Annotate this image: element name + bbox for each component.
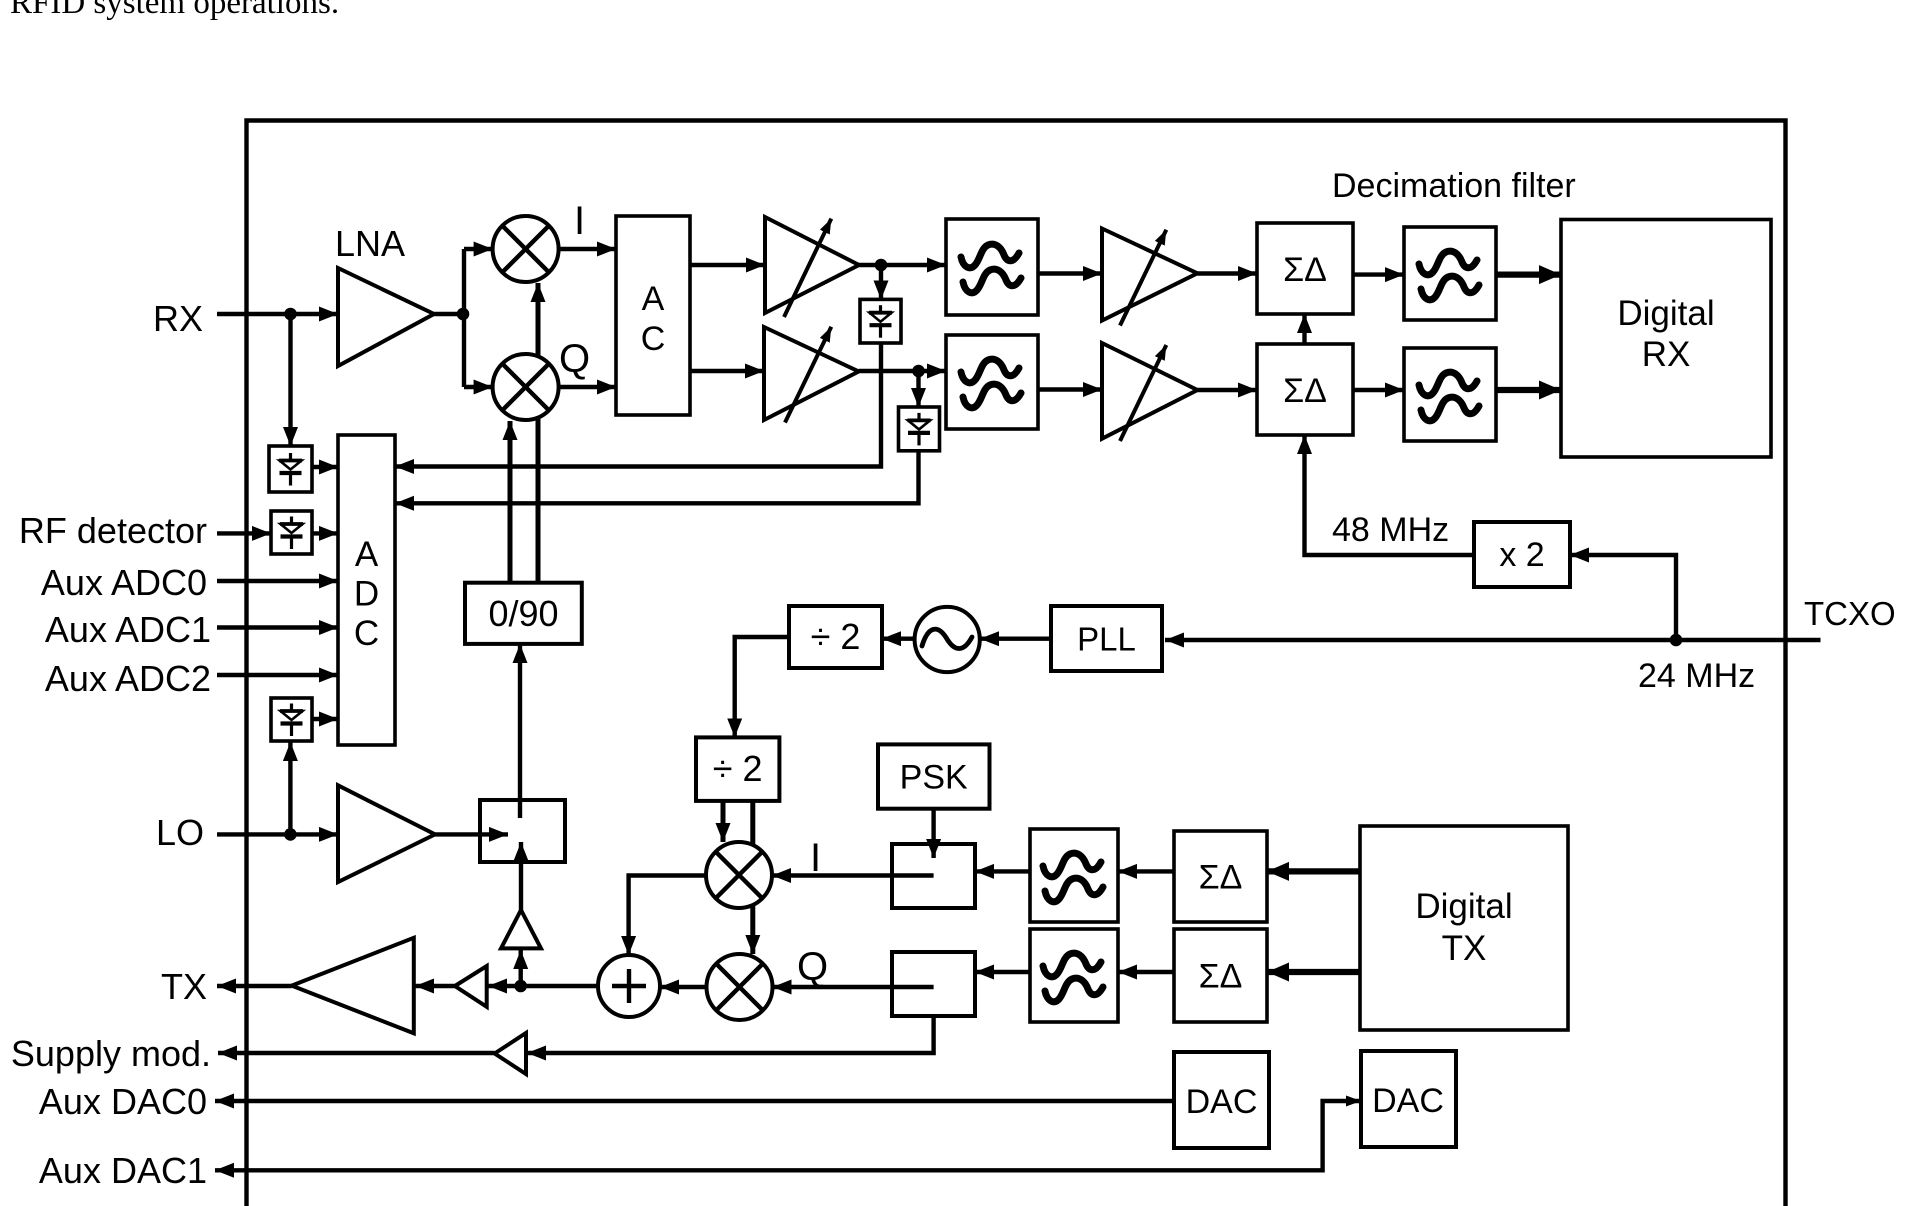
junction RX-detector: [284, 308, 297, 321]
block Digital TX: [1360, 826, 1568, 1030]
svg-text:PLL: PLL: [1077, 621, 1136, 658]
modulator switch Q: [892, 952, 975, 1016]
oscillator VCO: [915, 607, 980, 672]
modulator switch I: [892, 844, 975, 908]
svg-text:Digital: Digital: [1617, 294, 1714, 333]
filter RX I first: [946, 219, 1038, 315]
wire LO amp into mux: [435, 832, 508, 836]
block AC: [616, 216, 690, 415]
svg-text:Digital: Digital: [1415, 887, 1512, 926]
detector A: [269, 446, 312, 492]
wire RX to detector A: [288, 314, 292, 446]
wire clock between sigma-deltas: [1302, 314, 1306, 344]
block ADC: [338, 435, 395, 745]
junction TX node: [514, 980, 527, 993]
wire VGA2 to filter2: [859, 369, 946, 373]
svg-text:ΣΔ: ΣΔ: [1199, 859, 1243, 897]
block sigma-delta RX Q: [1257, 344, 1353, 435]
svg-text:0/90: 0/90: [488, 593, 558, 634]
block LO mux: [480, 800, 565, 862]
wire VCO to div2 first: [882, 637, 915, 641]
wire filter2 to VGA4: [1038, 387, 1102, 391]
wire TX LO into mux: [519, 842, 523, 910]
wire LO 0/90 to mixer Q: [508, 421, 513, 583]
amplifier VGA2: [764, 327, 859, 423]
filter RX Q first: [946, 335, 1038, 429]
mixer RX I: [493, 216, 559, 282]
wire TX filter Q to Q modulator: [975, 970, 1030, 974]
wire buffer to TX amp: [415, 984, 455, 988]
svg-text:ΣΔ: ΣΔ: [1283, 251, 1327, 289]
detector D2: [899, 407, 940, 451]
wire detector A to ADC: [312, 465, 338, 469]
wire mixer Q to AC: [559, 385, 616, 389]
filter RX Q second: [1404, 348, 1496, 441]
wire VGA4 to sigma-delta RX Q: [1197, 388, 1257, 392]
junction VGA2 output: [912, 365, 925, 378]
wire Aux ADC1 input: [217, 625, 338, 629]
block sigma-delta TX I: [1174, 831, 1267, 922]
wire feedback bus I to ADC: [395, 343, 881, 467]
wire AC to VGA2: [690, 369, 764, 373]
wire LO input: [217, 832, 338, 836]
wire filter1 to VGA3: [1038, 271, 1102, 275]
wire LNA output split: [434, 249, 464, 387]
block DAC first: [1174, 1052, 1269, 1148]
wire detector C to ADC: [312, 717, 338, 721]
wire 48MHz clock: [1305, 435, 1475, 555]
svg-text:C: C: [641, 320, 666, 358]
svg-text:Aux DAC1: Aux DAC1: [39, 1150, 207, 1191]
junction TCXO node: [1670, 634, 1683, 647]
amplifier LNA: [338, 268, 434, 366]
buffer TX LO: [501, 910, 541, 948]
svg-text:LO: LO: [156, 812, 204, 853]
wire Aux ADC0 input: [217, 579, 338, 583]
wire VGA3 to sigma-delta RX I: [1197, 271, 1257, 275]
wire mixer I to AC: [559, 247, 616, 251]
bus filter3 to Digital RX: [1496, 271, 1561, 277]
amplifier LO buffer: [338, 785, 435, 882]
wire I modulator to TX mixer I: [772, 873, 934, 877]
wire sigma-delta TX Q to filter: [1118, 970, 1174, 974]
wire TX amp to TX pad: [217, 984, 292, 988]
wire div2 first to div2 second: [735, 637, 789, 737]
svg-text:I: I: [574, 199, 585, 243]
svg-text:DAC: DAC: [1372, 1082, 1444, 1120]
svg-text:RF detector: RF detector: [19, 510, 207, 551]
wire LO 0/90 to mixer I: [536, 283, 541, 583]
junction LNA output: [457, 308, 470, 321]
amplifier VGA4: [1102, 343, 1197, 441]
block PSK: [878, 744, 990, 808]
mixer RX Q: [493, 354, 559, 420]
wire Q modulator to TX mixer Q: [773, 985, 934, 989]
svg-text:I: I: [810, 836, 821, 880]
wire RX input: [217, 312, 338, 316]
svg-text:D: D: [354, 575, 379, 614]
svg-text:ΣΔ: ΣΔ: [1283, 372, 1327, 410]
mixer TX I: [706, 842, 772, 908]
wire TX node to LO buffer: [519, 950, 523, 986]
svg-text:PSK: PSK: [900, 759, 968, 797]
svg-text:LNA: LNA: [335, 223, 405, 264]
wire to detector D1: [879, 265, 883, 300]
chip outer border: [247, 121, 1786, 1206]
svg-text:24 MHz: 24 MHz: [1638, 657, 1755, 695]
svg-text:TX: TX: [161, 966, 207, 1007]
filter TX Q: [1030, 929, 1118, 1022]
junction LO-detector: [284, 828, 297, 841]
block divider 2 first: [789, 606, 882, 668]
block DAC second: [1361, 1051, 1456, 1147]
svg-text:A: A: [355, 535, 379, 574]
wire adder to TX buffer: [488, 984, 598, 988]
wire LO to detector C: [288, 742, 292, 834]
buffer supply mod: [495, 1033, 526, 1074]
wire Aux DAC0 output: [215, 1099, 1174, 1103]
svg-text:A: A: [642, 280, 665, 318]
svg-text:TCXO: TCXO: [1804, 595, 1896, 632]
amplifier VGA3: [1102, 229, 1197, 326]
mixer TX Q: [707, 954, 773, 1020]
wire TX filter I to I modulator: [975, 869, 1030, 873]
svg-text:TX: TX: [1442, 929, 1487, 968]
wire supply modulation from Q modulator: [527, 987, 934, 1053]
wire AC to VGA1: [690, 263, 765, 267]
arrow into DAC second: [1338, 1099, 1361, 1103]
block x2 multiplier: [1474, 522, 1570, 587]
svg-text:ΣΔ: ΣΔ: [1199, 958, 1243, 996]
svg-text:RFID system operations.: RFID system operations.: [10, 0, 339, 21]
svg-text:RX: RX: [153, 298, 203, 339]
wire Aux ADC2 input: [217, 673, 338, 677]
svg-text:DAC: DAC: [1186, 1083, 1258, 1121]
wire into mixer I: [464, 247, 493, 251]
wire RF detector input: [217, 531, 271, 535]
wire TCXO to PLL: [1165, 638, 1821, 642]
wire feedback bus Q to ADC: [395, 451, 919, 504]
filter TX I: [1030, 829, 1118, 922]
bus filter4 to Digital RX: [1496, 387, 1561, 393]
block sigma-delta RX I: [1257, 223, 1353, 314]
wire PSK to I modulator: [931, 809, 935, 858]
detector D1: [860, 299, 901, 343]
wire to detector D2: [916, 371, 920, 407]
block divider 2 second: [696, 737, 779, 801]
wire TX mixer Q to adder: [660, 985, 707, 989]
bus Digital TX to sigma-delta Q: [1267, 969, 1360, 975]
wire PLL to VCO: [980, 637, 1051, 641]
svg-text:RX: RX: [1642, 335, 1691, 374]
svg-text:Q: Q: [797, 945, 828, 989]
block PLL: [1051, 606, 1162, 671]
svg-text:Q: Q: [559, 337, 590, 381]
svg-text:Aux ADC2: Aux ADC2: [45, 658, 211, 699]
amplifier VGA1: [765, 217, 859, 317]
junction VGA1 output: [875, 259, 888, 272]
svg-text:÷ 2: ÷ 2: [811, 616, 861, 657]
svg-text:x 2: x 2: [1499, 536, 1544, 574]
wire sigma-delta RX I to filter3: [1353, 272, 1404, 276]
filter RX I second: [1404, 227, 1496, 320]
svg-text:Aux ADC0: Aux ADC0: [41, 562, 207, 603]
svg-text:C: C: [354, 614, 379, 653]
svg-text:Aux ADC1: Aux ADC1: [45, 609, 211, 650]
wire VGA1 to filter1: [859, 263, 946, 267]
buffer TX small: [455, 966, 487, 1007]
wire supply mod output: [218, 1051, 495, 1055]
block Digital RX: [1561, 220, 1771, 458]
wire div2 to TX mixer Q: [750, 801, 755, 954]
wire div2 to TX mixer I: [721, 801, 726, 842]
wire 24MHz to x2: [1570, 555, 1676, 640]
wire Aux DAC1 output: [215, 1101, 1361, 1170]
svg-text:÷ 2: ÷ 2: [713, 748, 763, 789]
bus Digital TX to sigma-delta I: [1267, 868, 1360, 874]
block 0/90 phase splitter: [465, 583, 582, 644]
amplifier TX power: [292, 938, 414, 1034]
block sigma-delta TX Q: [1174, 929, 1267, 1022]
wire sigma-delta TX I to filter: [1118, 869, 1174, 873]
svg-text:48 MHz: 48 MHz: [1332, 511, 1449, 549]
svg-text:Supply mod.: Supply mod.: [11, 1033, 211, 1074]
wire detector B to ADC: [312, 531, 338, 535]
wire TX mixer I to adder: [629, 876, 706, 956]
svg-text:Decimation filter: Decimation filter: [1332, 167, 1576, 205]
detector C: [271, 698, 312, 741]
wire sigma-delta RX Q to filter4: [1353, 388, 1404, 392]
detector B: [271, 511, 312, 554]
svg-text:Aux DAC0: Aux DAC0: [39, 1081, 207, 1122]
wire into mixer Q: [464, 385, 493, 389]
wire LO mux to 0/90: [518, 644, 522, 818]
adder: [598, 955, 660, 1017]
